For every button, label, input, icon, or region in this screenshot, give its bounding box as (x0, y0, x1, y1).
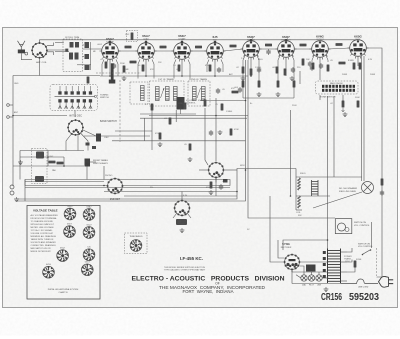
band switch stubs (60, 86, 91, 109)
line cord (341, 279, 379, 284)
tube V12 (174, 200, 191, 217)
cap right of 2nd IF (216, 88, 220, 94)
ground V6 (257, 92, 262, 97)
1st IF coil b (166, 87, 170, 101)
coil top (36, 152, 44, 159)
vertical x176 (175, 110, 177, 122)
tube V1 ant coil (31, 42, 48, 59)
ground under V13 (218, 130, 223, 135)
2nd IF coil b (202, 87, 206, 101)
coupling resistor R4 (230, 45, 237, 48)
switch symbol (363, 250, 370, 254)
output trans coil 1 (298, 178, 301, 190)
socket S2 (83, 209, 95, 221)
wire lamp feed (292, 270, 329, 278)
pin fanouts V6 (102, 56, 328, 67)
pilot tube (130, 240, 142, 252)
band switch dashed box (50, 85, 98, 111)
right side parts (381, 179, 384, 186)
dark tuning cluster (177, 97, 185, 110)
electrolytic C17 (353, 63, 356, 70)
ground V7 (276, 92, 281, 97)
coupling resistor R6 (300, 44, 307, 47)
resistor R10 between V2/V3 (130, 61, 137, 64)
1st IF transformer dashed box (150, 81, 185, 106)
wire x205 vertical (205, 108, 208, 165)
wire motor box vertical (371, 222, 373, 248)
RF box cluster 2a (69, 53, 73, 60)
wire left horiz y75 (13, 75, 100, 77)
2nd IF transformer dashed box (188, 81, 210, 106)
wire y115 left (13, 115, 67, 117)
pilot lamp 3 (316, 275, 322, 281)
rf wires (55, 42, 91, 70)
tube V11 phono (107, 178, 124, 195)
resistor R26 under V8 (302, 59, 305, 66)
socket S4 (83, 227, 95, 239)
V13 drop wire (215, 179, 217, 197)
shielded cap under V2 (111, 63, 114, 82)
right column part 3 (85, 65, 90, 70)
resistor under V13 (210, 182, 213, 189)
coupling resistor R7 (336, 43, 343, 46)
field coil ladder (312, 180, 319, 196)
electrolytic C18 (359, 63, 362, 70)
wire band switch drop (74, 111, 76, 118)
resistor R24 mid right (204, 100, 207, 107)
RF box cluster 1a (70, 42, 74, 48)
band switch contacts row2 (58, 99, 92, 102)
wire bus loop2 (17, 169, 296, 200)
ground mid (188, 157, 193, 162)
resistor right of 2nd IF (232, 91, 239, 94)
RF box cluster 1b (75, 42, 79, 48)
tube V3 6SA7 (136, 43, 157, 62)
voltage table text lines (31, 214, 59, 253)
wire x216 mid vertical (215, 98, 217, 161)
RF box small blob (65, 49, 68, 52)
wire V9 to right rail (366, 48, 382, 84)
coil bottom (35, 176, 44, 182)
wire tube links top row (46, 48, 349, 51)
rectifier inner marks (289, 259, 296, 261)
motor inner circle (345, 228, 349, 232)
V12 slant stubs (173, 214, 191, 219)
tube V13 (208, 162, 225, 179)
grid caps on tubes (109, 39, 287, 43)
wire bus loop3 (17, 60, 246, 201)
padder capacitor C31 (57, 162, 64, 165)
V13 side blob (223, 179, 228, 183)
coupling capacitor C5 (266, 49, 270, 55)
wire V13 links (199, 170, 237, 183)
wire y131 (115, 130, 152, 132)
resistor chain V6a (242, 81, 245, 88)
resistor R16 under V7 (276, 67, 279, 74)
wire drops from top bus to tubes (110, 40, 320, 43)
RF box cluster 2b (75, 53, 79, 60)
resistor R11 under V3 (142, 65, 145, 72)
resistor chain V6b (258, 81, 261, 88)
socket S8 (82, 264, 94, 276)
wire bus extra lines (25, 180, 230, 202)
band switch wiper line (55, 95, 96, 97)
ground bottom right (324, 287, 329, 292)
V1 stubs (47, 43, 54, 56)
wire y196 lower mid (124, 195, 237, 197)
dark trimmer left mid (85, 159, 91, 167)
socket S5 (57, 250, 69, 262)
resistor V8 (327, 65, 330, 72)
motor circle (338, 223, 346, 231)
plug (379, 276, 389, 287)
coil dashed box left (32, 149, 48, 184)
resistor R25 mid right (221, 104, 224, 111)
capacitor C15 under V7 (291, 67, 295, 73)
resistor R17 under V7 (284, 69, 287, 76)
resistor mid 5 (189, 144, 192, 151)
B+ line y141 (112, 140, 246, 142)
capacitor C24 mid right (238, 87, 242, 93)
tube V7 6SQ7 (276, 41, 297, 60)
resistor mid 4 (184, 103, 187, 110)
tube V6 6SQ7 (241, 41, 262, 60)
wire tone box drop (300, 71, 343, 101)
resistor below tone switch (342, 101, 345, 108)
tone switch outer box (316, 81, 359, 94)
antenna terminals left edge (7, 104, 10, 107)
wire top bus (40, 40, 359, 43)
resistor R18 under V8 (312, 63, 315, 70)
capacitor C13 under V5 (217, 67, 221, 73)
tube V12 base blobs (176, 219, 187, 225)
fuse resistor (354, 261, 357, 268)
resistor R27 right column (357, 101, 360, 108)
tube V8 6V6G (310, 41, 331, 60)
resistor R19 under V9 (339, 62, 346, 65)
speaker cone line (313, 192, 362, 208)
resistor chain V7b (293, 81, 296, 88)
arrow below tone switch (342, 108, 345, 112)
choke block (306, 265, 316, 272)
antenna terminal (25, 52, 28, 55)
wire vertical x248 (248, 60, 335, 218)
tiny value labels (14, 34, 376, 231)
phono jack (10, 185, 14, 189)
osc coil bar (141, 86, 145, 101)
resistor R13 under V5 (209, 65, 212, 72)
cap under V13 (219, 184, 223, 190)
output transformer box (335, 219, 352, 234)
tube V2 6SG7 (100, 43, 121, 62)
resistor mid 2 (159, 133, 162, 140)
trimmer above band switch (87, 77, 90, 84)
osc coil box left of IF (130, 82, 148, 104)
V10 fan lines (66, 130, 96, 151)
resistor 470K mid (230, 129, 233, 136)
bottom wires (270, 196, 352, 272)
chain wires (102, 66, 294, 98)
padder capacitor C30 (49, 161, 56, 164)
resistor R14 under V6 (242, 67, 245, 74)
AVC dashed line (96, 72, 141, 74)
capacitor C26 under V8 (308, 61, 312, 67)
transformer taps (341, 252, 348, 281)
transformer terminal squares (323, 251, 326, 278)
wire speaker rails (296, 177, 362, 210)
coupling resistor R1 (125, 46, 132, 49)
wire bus loop1 (25, 180, 230, 186)
wire left rows (13, 151, 104, 180)
resistor R8 under V2 (105, 62, 108, 69)
capacitor C8 under V2 (112, 63, 116, 69)
band switch contacts row1 (58, 91, 92, 94)
ground phono (14, 197, 19, 202)
wire vertical x290 (290, 110, 292, 196)
wire vertical x334 (333, 96, 335, 177)
socket S6 (83, 249, 95, 261)
vertical x152 (151, 106, 153, 150)
wire vertical x327 (327, 96, 329, 250)
dashed switch link (376, 248, 378, 278)
right column part 2 (85, 54, 90, 59)
wire mid horizontal y168 (215, 169, 217, 181)
dashed gang line (119, 80, 121, 142)
bottom right extra wires (278, 240, 355, 284)
V12 top wire (181, 192, 183, 201)
tube V5 6J5 (205, 43, 226, 62)
wire y132 mid (84, 135, 150, 137)
resistor R12 under V4 (178, 65, 181, 72)
tube V9 6X5G (348, 40, 369, 59)
socket S3 (64, 226, 76, 238)
cap mid right (209, 130, 213, 136)
pilot lamp 2 (308, 275, 314, 281)
ground symbols row (122, 76, 127, 81)
tube V10 osc (67, 119, 84, 136)
socket S1 (64, 208, 76, 220)
speaker voice coil (362, 182, 374, 194)
voltage table box (27, 206, 100, 300)
antenna (18, 41, 26, 50)
wire vertical pair x362 (362, 56, 365, 181)
pilot lamp 1 (301, 275, 307, 281)
right column part 1 (85, 42, 90, 48)
resistor mid 3 (169, 118, 172, 125)
antenna coil block (18, 50, 25, 54)
tone switch contact row 2 (322, 89, 355, 92)
coupling resistor R3 (195, 46, 202, 49)
coupling resistor R5 (265, 44, 272, 47)
wires under IF (140, 110, 247, 119)
wire heater bus y76 (100, 75, 248, 77)
tube V4 6SK7 (172, 43, 193, 62)
resistor R15 under V6 (250, 69, 253, 76)
2nd IF arrow (197, 88, 201, 98)
wire heater drops (40, 57, 359, 81)
resistor R9 between V2/V3 (123, 66, 126, 73)
capacitor C16 under V8 (319, 63, 323, 69)
1st IF arrows (161, 88, 165, 98)
band switch chevrons (58, 106, 92, 109)
cap V8 (310, 65, 314, 71)
1st IF coil a (156, 87, 160, 101)
1st IF coil c (174, 87, 178, 101)
rectifier tube (284, 254, 301, 271)
coupling resistor R2 (160, 46, 167, 49)
sub-labels under tube names (106, 38, 361, 44)
resistor mid 1 (151, 104, 154, 111)
wire osc trimmer link (90, 161, 96, 163)
wire vertical x382 (377, 84, 382, 277)
vertical x144 (144, 118, 146, 141)
ground under V13 cluster (209, 190, 214, 195)
2nd IF coil a (193, 87, 197, 101)
V10 fan blobs (86, 143, 90, 146)
tone switch contact row 1 (322, 85, 355, 88)
pilot dashed box (125, 233, 148, 254)
speaker rail connector (295, 169, 297, 178)
wire left vertical (12, 76, 14, 187)
RF transformer dashed box (63, 39, 83, 72)
resistor chain V7a (277, 81, 280, 88)
trimmer right of band switch (96, 134, 101, 142)
output trans coil 2 (298, 196, 301, 208)
socket S7 (43, 266, 55, 278)
wire mid horizontals (104, 101, 248, 192)
osc coil dashed box (127, 31, 138, 42)
antenna drop wire (21, 53, 32, 59)
capacitor C14 under V6 (257, 67, 261, 73)
power transformer (328, 249, 341, 284)
